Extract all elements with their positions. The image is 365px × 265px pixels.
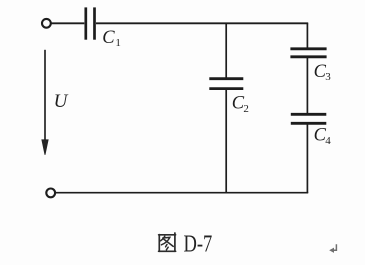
wire: top-left terminal to C1	[51, 22, 84, 24]
wire: right branch lower segment	[306, 124, 308, 194]
label C2	[232, 93, 249, 115]
label C3	[314, 62, 332, 83]
svg-text:C: C	[102, 28, 115, 48]
caption glyph 图	[159, 233, 176, 251]
wire: right branch upper segment	[306, 23, 308, 49]
wire: middle branch upper segment	[225, 23, 227, 78]
svg-text:4: 4	[325, 135, 331, 147]
label C1	[102, 28, 121, 49]
svg-text:U: U	[54, 91, 69, 112]
svg-text:3: 3	[325, 71, 331, 83]
capacitor C1	[86, 7, 95, 39]
capacitor C2	[209, 79, 243, 89]
paragraph return mark	[329, 244, 336, 253]
capacitor C3	[290, 49, 326, 57]
svg-text:1: 1	[115, 37, 121, 49]
wire: C1 to top-right corner	[96, 22, 308, 24]
terminal T1 (top-left)	[42, 19, 51, 28]
label C4	[314, 125, 332, 146]
wire: middle branch lower segment	[225, 89, 227, 193]
wire: bottom	[56, 192, 309, 194]
capacitor C4	[291, 114, 327, 123]
terminal T2 (bottom-left)	[46, 189, 55, 198]
svg-text:D-7: D-7	[184, 231, 213, 257]
voltage arrow U	[42, 50, 48, 155]
svg-text:2: 2	[243, 103, 249, 115]
wire: right branch middle segment	[306, 57, 308, 114]
